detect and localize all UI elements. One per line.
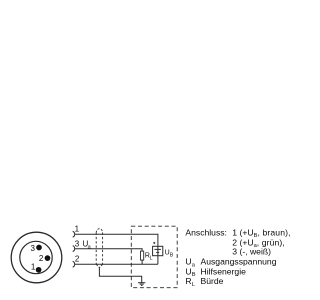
svg-text:U: U [165,250,170,257]
annotation line 4: Ua Ausgangsspannung [185,257,276,269]
svg-text:L: L [192,282,195,288]
svg-text:1: 1 [31,263,36,272]
wire 3 (horizontal, then down to resistor RL) [75,249,142,251]
svg-text:L: L [150,256,153,262]
svg-text:Ausgangsspannung: Ausgangsspannung [201,257,277,267]
battery UB long plate [155,248,161,250]
pin 3 contact dot [36,245,42,251]
connector face inner circle [20,241,52,273]
cable sheath (dashed outline with rounded top and tapered bottom) [96,229,102,268]
svg-text:a: a [192,262,196,268]
battery plus sign [153,242,155,244]
wire 3 label "3 Ua" [75,240,92,251]
svg-text:2: 2 [75,255,80,264]
svg-text:Anschluss:: Anschluss: [185,227,227,237]
svg-text:U: U [185,266,191,276]
pin 1 contact dot [36,267,42,273]
dashed enclosure (external circuit box) [131,226,177,288]
annotation line 2: 2 (+Ua, gruen), [232,237,285,249]
annotation line 1: Anschluss: 1 (+UB, braun), [185,227,290,239]
svg-text:3: 3 [31,244,36,253]
contact hook wire 3 [73,246,75,252]
svg-text:R: R [185,276,191,286]
svg-text:3: 3 [75,240,80,249]
svg-text:B: B [192,272,196,278]
ground (earth symbol, three bars) [138,283,145,286]
svg-text:U: U [185,257,191,267]
svg-text:1: 1 [75,225,80,234]
svg-text:B: B [170,253,174,259]
svg-text:Bürde: Bürde [201,276,224,286]
battery UB short plate [156,251,159,253]
shield drain wire to ground [99,268,141,283]
annotation line 3: 3 (-, weiss) [232,246,271,256]
connector face outer circle [11,232,62,283]
resistor RL bottom lead [141,260,143,264]
battery UB body [153,246,163,255]
battery UB label [165,250,174,259]
resistor RL body [141,251,144,260]
svg-text:2: 2 [39,254,44,263]
svg-text:a: a [88,244,92,250]
svg-text:1 (+U: 1 (+U [232,227,253,237]
resistor RL label [145,253,153,262]
pin 2 contact dot [45,255,51,261]
wire 2 (horizontal to battery minus lead) [75,263,158,265]
annotation line 5: UB Hilfsenergie [185,266,246,278]
contact hook wire 1 [73,231,75,237]
annotation line 6: RL Buerde [185,276,223,288]
svg-text:Hilfsenergie: Hilfsenergie [201,266,247,276]
wire 1 (horizontal, then down through battery to wire 2) [75,234,158,264]
svg-text:3 (-, weiß): 3 (-, weiß) [232,246,271,256]
svg-text:, braun),: , braun), [258,227,291,237]
contact hook wire 2 [73,261,75,267]
